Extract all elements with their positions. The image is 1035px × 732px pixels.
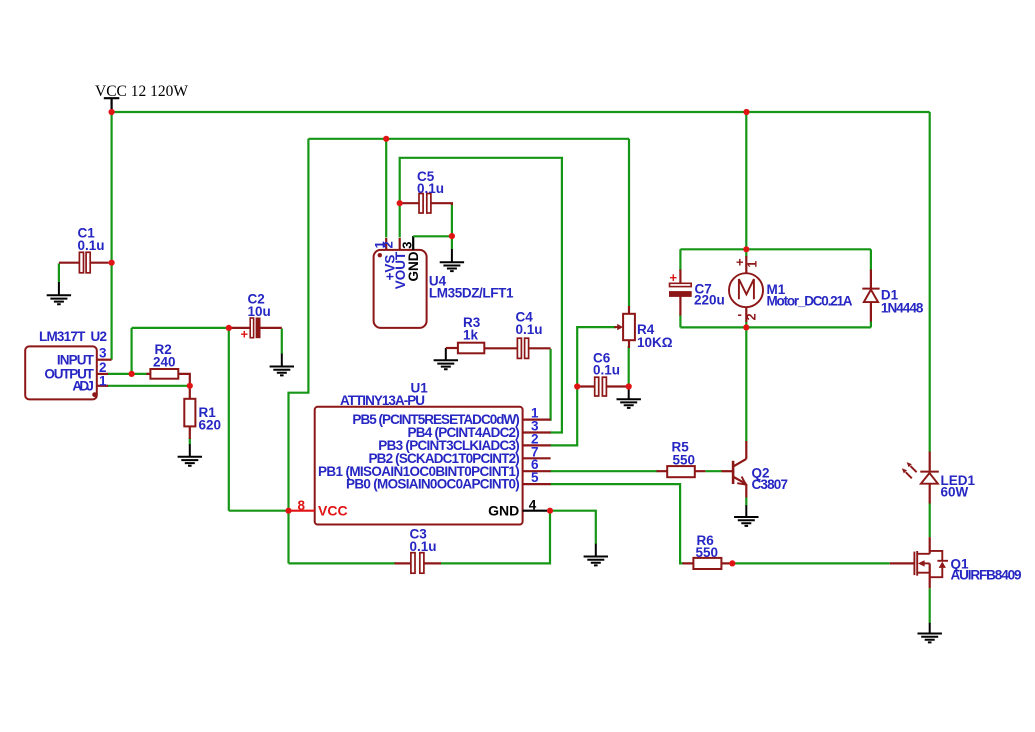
ground for ATTINY GND pin [584,544,608,566]
junction C2 positive node [226,325,232,331]
wire +VS drop [385,139,387,238]
wire motor loop top rail [680,248,871,250]
wire GND pin4 to ground [550,511,596,545]
wire C3 left to 5V riser [289,562,397,564]
wire C2 right lead down [281,329,283,355]
svg-text:4: 4 [529,498,537,513]
capacitor C4 [484,310,550,359]
junction wiper / C6 left [574,383,580,389]
wire C4 down to PB5 pin1 [550,349,551,420]
wire C1 ground lead [58,264,60,283]
wire C5 right to gnd junction [451,204,453,249]
svg-text:AUIRFB8409: AUIRFB8409 [951,568,1022,583]
ground under R3 [434,348,458,369]
svg-text:2: 2 [381,241,396,248]
svg-text:220u: 220u [694,293,725,308]
wire R1 bottom lead [189,438,191,445]
svg-text:0.1u: 0.1u [410,539,437,554]
sensor U4 LM35DZ [372,236,514,328]
wire PB0 pin5 down to R6 [550,484,685,563]
ground under C2 [270,354,294,376]
junction C1 / VCC12 rail [109,260,115,266]
svg-text:1N4448: 1N4448 [881,301,924,316]
capacitor C6 [579,351,629,397]
capacitor C7 (polarized) [670,270,725,316]
junction motor branch on top rail [743,109,749,115]
svg-text:+: + [736,255,744,270]
wire Q2 emitter to ground [745,498,747,506]
wire wiper node up and to R4 arrow [577,327,616,386]
led LED1 [902,452,976,504]
wire motor loop bottom rail [680,326,871,328]
wire motor top lead [745,249,747,257]
svg-text:5: 5 [531,470,539,485]
wire 5V riser jog [289,139,309,564]
potentiometer R4 [614,306,673,350]
ground under R1 [178,444,202,465]
svg-text:LM35DZ/LFT1: LM35DZ/LFT1 [429,286,514,301]
svg-text:10KΩ: 10KΩ [637,335,673,350]
svg-text:C3807: C3807 [752,477,789,492]
resistor R5 [657,440,706,478]
resistor R6 [683,533,733,569]
svg-text:0.1u: 0.1u [593,363,620,378]
transistor Q2 C3807 [705,441,788,498]
capacitor C5 [401,169,452,213]
resistor R2 [147,342,190,387]
microcontroller U1 ATTINY13A-PU [289,381,551,525]
junction VCC pin 8 node [285,508,291,514]
svg-text:0.1u: 0.1u [417,181,444,196]
capacitor C2 (polarized) [231,292,282,342]
svg-text:60W: 60W [941,485,969,500]
resistor R1 [184,387,221,439]
motor M1 [729,255,853,323]
ground under R4 / C6 [617,387,641,408]
svg-text:550: 550 [673,453,696,468]
wire GND pin4 down to C3 [441,511,550,564]
junction GND pin 4 node [547,508,553,514]
svg-text:1k: 1k [463,328,479,343]
junction +VS on 5V rail [383,136,389,142]
svg-text:LM317T U2: LM317T U2 [39,329,107,344]
svg-text:Motor_DC0.21A: Motor_DC0.21A [767,294,853,309]
wire right rail down to LED1 [929,112,931,452]
junction R6 / Q1 gate [729,560,735,566]
junction LM317 OUTPUT node [129,371,135,377]
wire VOUT riser and rail to PB4 [400,158,562,433]
wire C7 top lead [679,249,681,271]
svg-text:2: 2 [745,313,759,320]
svg-text:1: 1 [99,373,107,388]
svg-text:+: + [241,327,249,342]
junction motor plus node [743,246,749,252]
svg-text:550: 550 [696,545,719,560]
ground under Q2 emitter [734,505,758,526]
ground under Q1 source [918,623,942,643]
svg-text:GND: GND [488,503,519,519]
wire D1 bottom lead [870,321,872,328]
svg-text:VCC: VCC [318,503,348,519]
resistor R3 [446,315,485,353]
svg-text:0.1u: 0.1u [78,238,105,253]
svg-text:0.1u: 0.1u [516,322,543,337]
svg-text:GND: GND [406,251,421,281]
ground under C5 / U4 GND [440,249,464,271]
svg-text:8: 8 [298,498,306,513]
wire LM317 OUTPUT to junction [107,373,148,375]
wire R4 top drop [628,139,630,307]
svg-text:PB0 (MOSIAIN0OC0APCINT0): PB0 (MOSIAIN0OC0APCINT0) [346,477,520,492]
wire C7 bottom lead [679,314,681,327]
svg-text:3: 3 [400,242,415,249]
wire OUTPUT junction up to C2 rail [131,328,133,374]
svg-text:+: + [670,270,678,285]
svg-text:INPUT: INPUT [57,352,95,367]
junction motor minus node [743,324,749,330]
svg-text:ADJ: ADJ [72,379,94,394]
svg-text:10u: 10u [248,304,271,319]
wire R4 bottom to C6 junction [628,346,630,387]
wire C2 junction down [228,328,230,511]
svg-text:-: - [738,307,742,322]
wire VCC12 left drop to LM317 INPUT [110,112,112,360]
junction R4 bottom / C6 right [626,383,632,389]
junction ADJ / R1 node [187,383,193,389]
regulator U2 LM317T [25,329,111,399]
wire Q1 source to ground [929,588,931,623]
svg-text:ATTINY13A-PU: ATTINY13A-PU [340,393,425,408]
wire motor branch drop [745,112,747,249]
svg-text:1: 1 [746,261,760,268]
power flag VCC 12 120W [95,83,188,112]
ground under C1 [47,282,71,304]
wire ADJ to R1 junction [107,385,190,387]
wire VCC12 top rail [112,111,930,113]
wire motor bottom lead [745,321,747,327]
wire PB3 pin2 to R4 wiper node [550,387,578,446]
diode D1 1N4448 [862,270,924,322]
junction C5 / U4 GND [449,233,455,239]
junction VCC supply node [109,109,115,115]
svg-text:620: 620 [199,418,222,433]
svg-text:240: 240 [153,355,176,370]
svg-text:VCC 12 120W: VCC 12 120W [95,83,188,100]
capacitor C1 [59,226,109,273]
junction VOUT / C5 [397,200,403,206]
wire motor node down to Q2 collector [745,327,747,441]
wire PB1 pin6 to R5 [550,470,659,472]
svg-text:3: 3 [99,346,107,361]
wire R6 junction to Q1 gate [732,562,890,564]
wire to VCC pin8 junction [229,510,289,512]
wire 5V inner top rail [308,138,629,140]
capacitor C3 [395,527,442,574]
wire D1 top lead [870,249,872,270]
wire LED1 cathode to Q1 drain [929,503,931,537]
wire C2 rail horizontal [132,327,230,329]
mosfet Q1 AUIRFB8409 [890,537,1022,588]
